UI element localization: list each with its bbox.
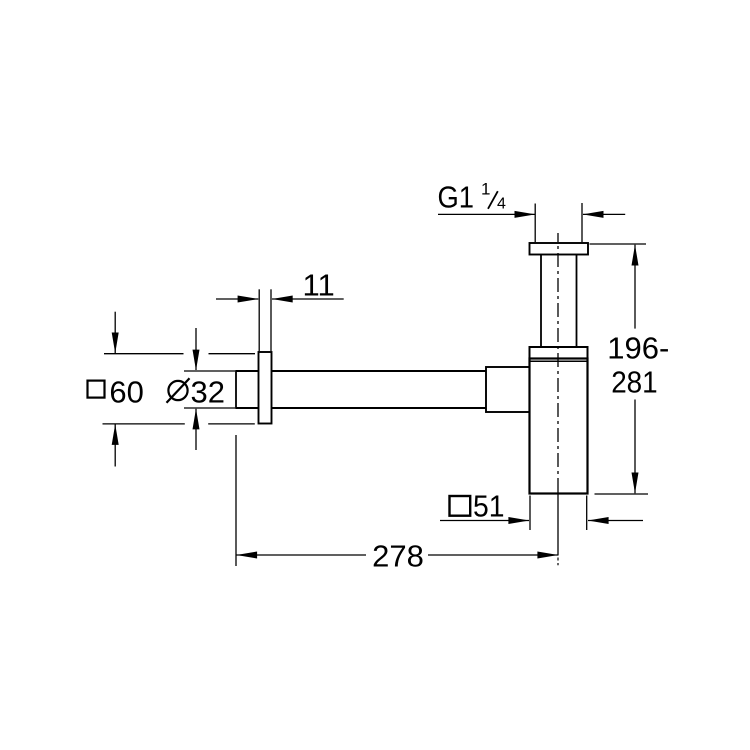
sq51 square symbol — [450, 496, 471, 516]
arrow 196-281 top (points up) — [632, 245, 639, 266]
dim sq60 upper shaft — [114, 312, 116, 353]
dia32 circle symbol — [168, 381, 187, 400]
dim 278 right segment — [428, 554, 558, 556]
dim 11 extension line left — [258, 289, 260, 351]
dim 11 extension line right — [270, 289, 272, 351]
svg-text:60: 60 — [109, 374, 143, 409]
vertical pipe left wall — [540, 255, 542, 347]
svg-text:51: 51 — [473, 488, 505, 523]
bottle body — [530, 359, 588, 494]
seam line — [530, 360, 588, 362]
arrow 278 right (points right) — [537, 552, 558, 559]
dim sq51 left tail — [440, 520, 529, 522]
svg-text:32: 32 — [191, 374, 225, 409]
dim G1 1/4 extension line right — [581, 203, 583, 242]
arrow sq60 top (points down) — [112, 333, 119, 354]
centerline dashed part — [557, 233, 559, 491]
arrow dia32 bottom (points up) — [193, 409, 200, 430]
dim 196-281 top extension — [590, 243, 647, 245]
arrow 278 left (points left) — [236, 552, 257, 559]
dim sq60 lower shaft — [114, 424, 116, 466]
dim dia32 top extension — [184, 370, 235, 372]
connector block — [486, 367, 530, 412]
arrow G1 left (points right) — [515, 211, 536, 218]
arrow 11 right (points left) — [272, 296, 293, 303]
dim dia32 bottom extension — [184, 407, 235, 409]
dim 11 left tail — [216, 298, 258, 300]
dim 196-281 bottom extension — [595, 493, 649, 495]
svg-text:11: 11 — [303, 268, 335, 303]
svg-text:G1: G1 — [438, 180, 475, 215]
svg-text:4: 4 — [497, 196, 506, 213]
wall flange — [259, 352, 272, 424]
dim 278 left segment — [237, 554, 367, 556]
horizontal pipe top edge — [236, 370, 259, 372]
dim sq60 top extension — [104, 353, 184, 355]
svg-text:281: 281 — [611, 364, 658, 399]
svg-text:196-: 196- — [607, 330, 669, 365]
dim G1 1/4 right tail — [583, 213, 625, 215]
sq60 square symbol — [88, 381, 105, 398]
dim sq51 right tail — [588, 520, 643, 522]
dim G1 1/4 extension line left — [534, 204, 536, 243]
centerline solid part — [557, 491, 559, 556]
dim 196-281 upper segment — [634, 245, 636, 329]
vertical pipe right wall — [576, 255, 578, 347]
arrow G1 right (points left) — [583, 211, 604, 218]
centerline end dashes — [557, 558, 559, 566]
horizontal pipe bottom edge — [236, 407, 259, 409]
dim 11 right tail — [272, 298, 344, 300]
dim G1 1/4 leader line — [438, 213, 535, 215]
arrow sq60 bottom (points up) — [112, 424, 119, 445]
arrow dia32 top (points down) — [193, 350, 200, 371]
dim sq51 extension right — [586, 496, 588, 531]
dia32 slash — [167, 378, 190, 403]
bottom nut — [530, 347, 588, 359]
svg-text:278: 278 — [372, 539, 424, 574]
dim sq51 extension left — [529, 496, 531, 531]
dim 196-281 lower segment — [634, 400, 636, 494]
pipe left end cap — [235, 370, 237, 409]
G1 fraction slash — [488, 191, 498, 209]
arrow sq51 left (points right) — [508, 517, 529, 524]
dim dia32 upper shaft — [195, 328, 197, 370]
dim sq60 bottom extension — [103, 423, 185, 425]
arrow sq51 right (points left) — [588, 517, 609, 524]
arrow 11 left (points right) — [238, 296, 259, 303]
dim dia32 lower shaft — [195, 409, 197, 450]
dim 278 left extension — [235, 435, 237, 566]
svg-text:1: 1 — [481, 180, 490, 199]
arrow 196-281 bottom (points down) — [632, 473, 639, 494]
top flange — [530, 243, 589, 255]
